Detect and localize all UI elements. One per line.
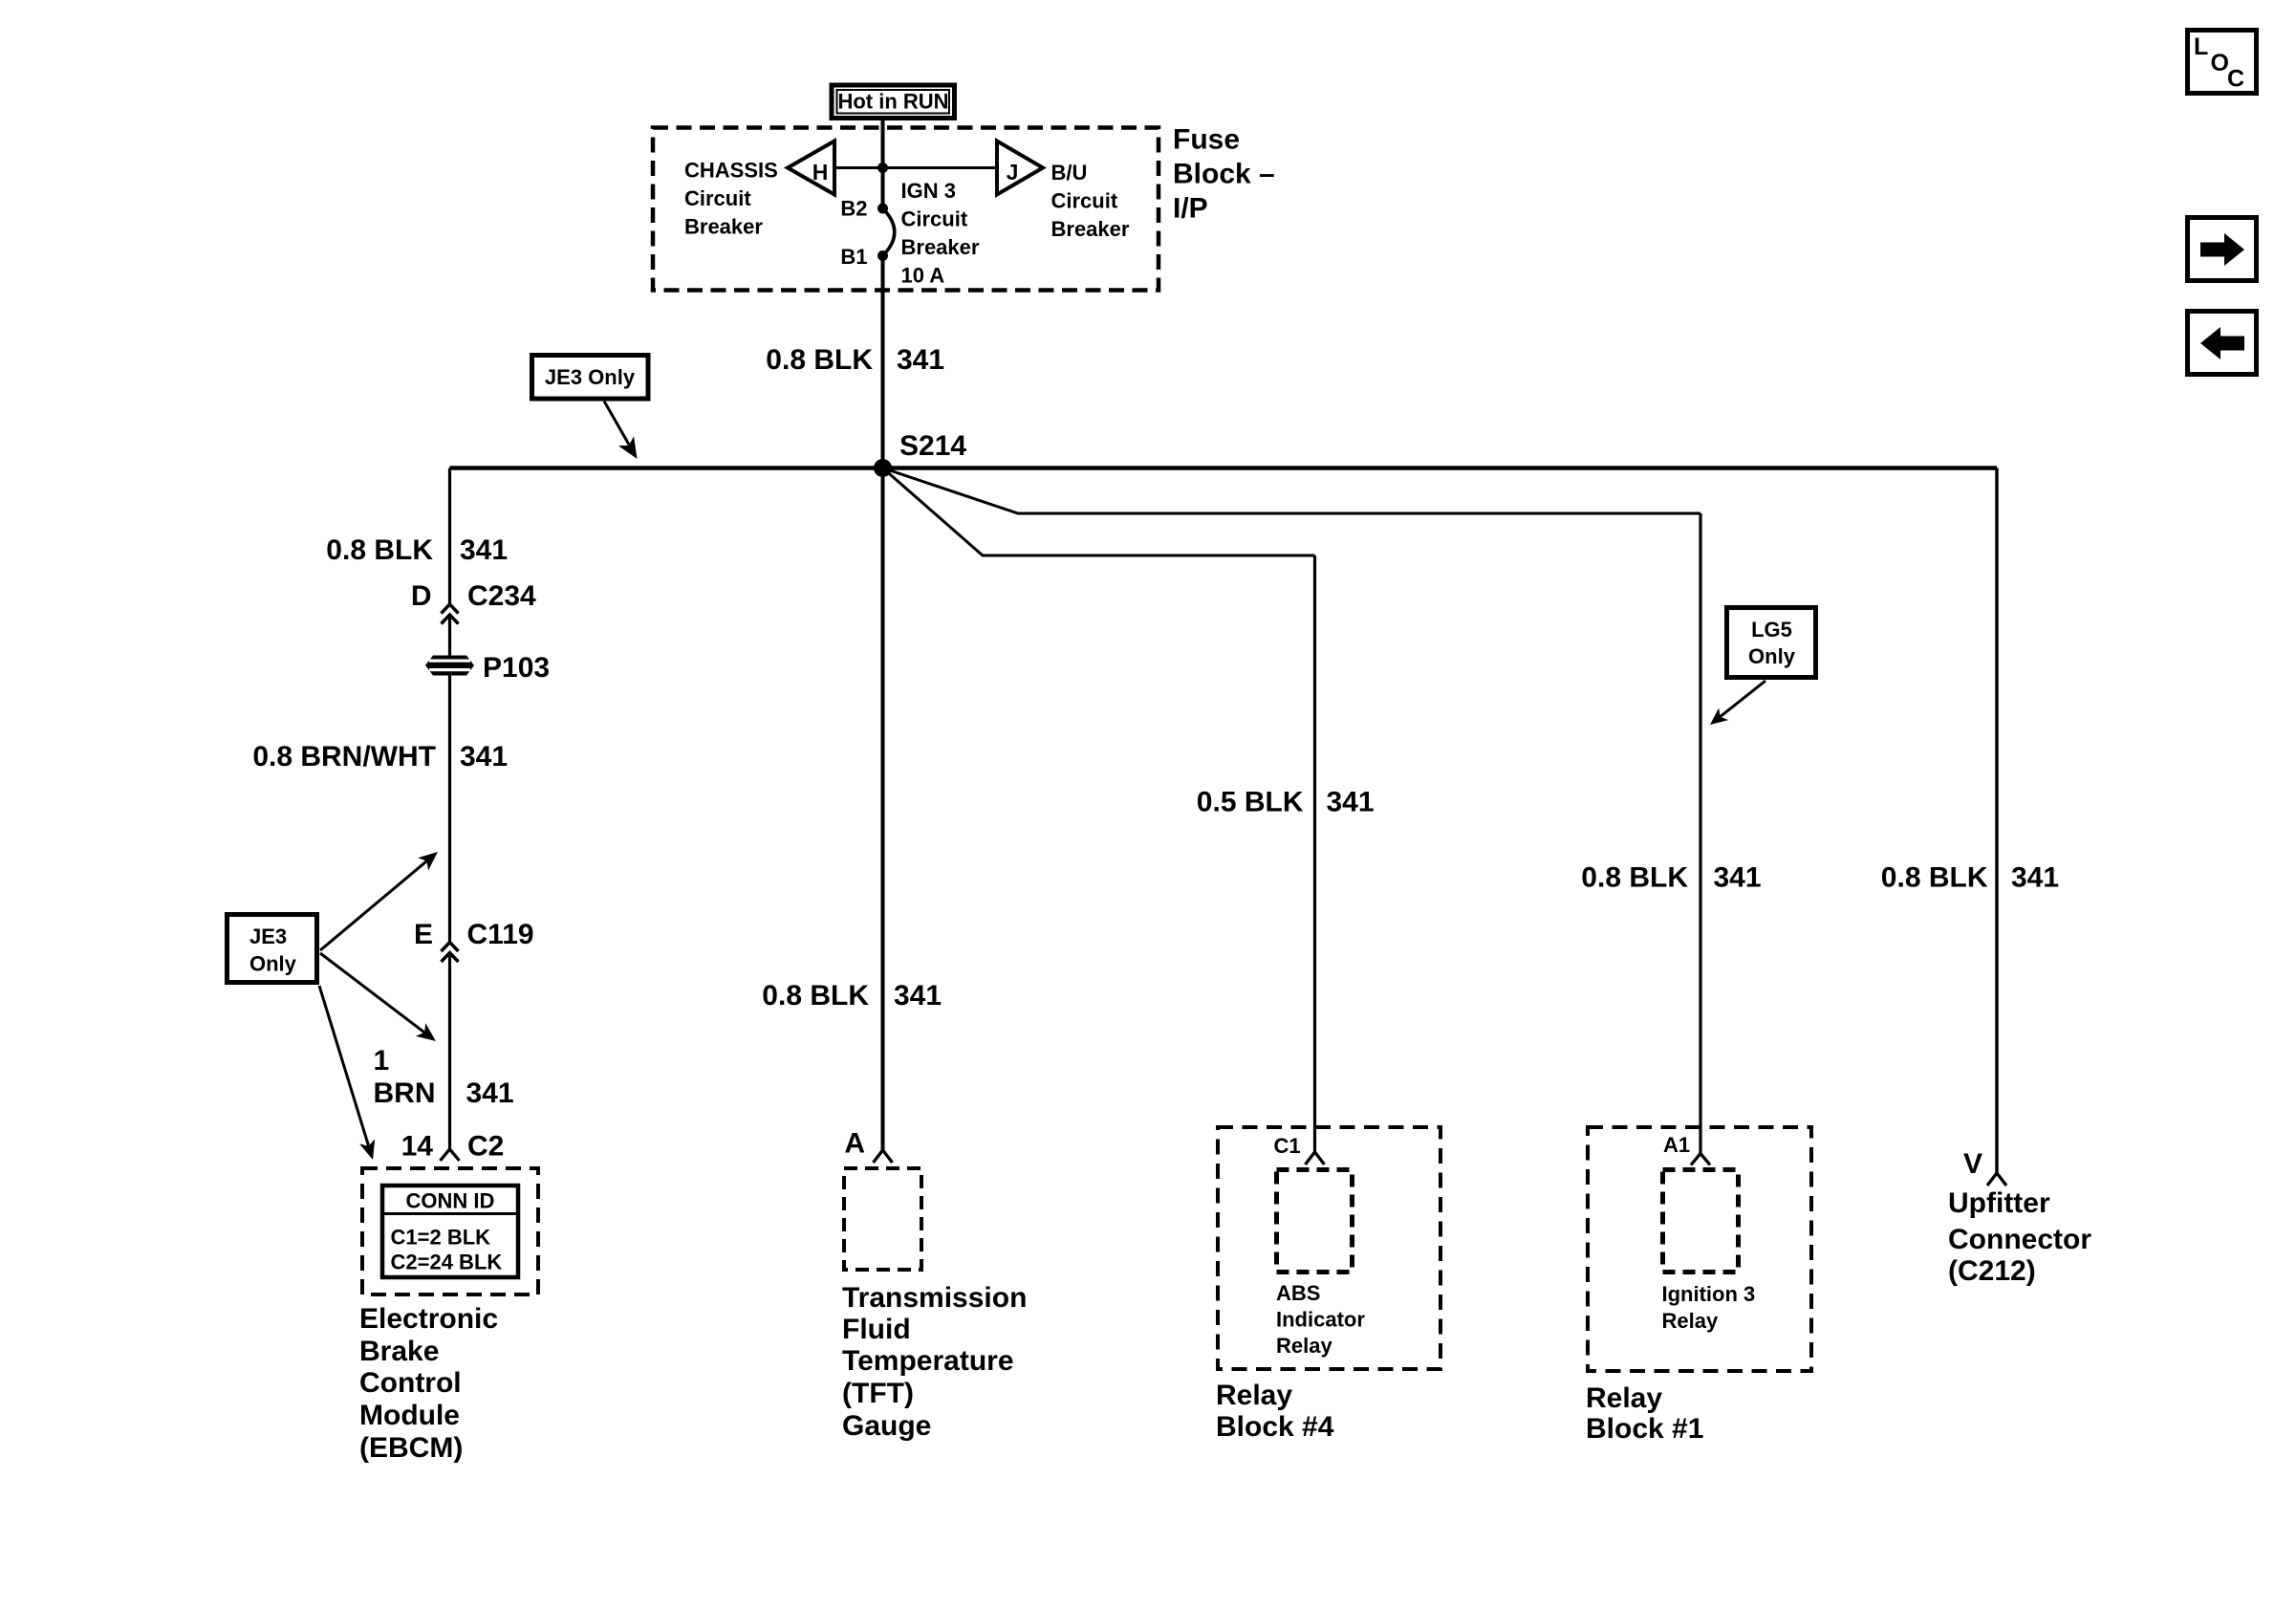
arrow JE3 to wire below E (320, 953, 436, 1041)
svg-text:JE3 Only: JE3 Only (545, 365, 636, 389)
svg-text:Indicator: Indicator (1276, 1308, 1365, 1332)
wire: Hot in RUN down to breaker pin B2 (881, 118, 885, 208)
Ignition 3 Relay inner dashed box (1663, 1170, 1739, 1273)
svg-text:C1=2 BLK: C1=2 BLK (391, 1226, 491, 1250)
wire: H-J horizontal feed (834, 166, 997, 169)
svg-text:Relay: Relay (1276, 1334, 1332, 1358)
wire label 0.8 BLK 341 (TFT branch) (762, 980, 942, 1012)
wire label 0.8 BRN/WHT 341 (252, 741, 508, 772)
wire: C119 down to EBCM pin 14 (448, 953, 451, 1150)
svg-text:Control: Control (359, 1367, 462, 1399)
svg-text:Brake: Brake (359, 1336, 439, 1367)
LOC index box (2188, 31, 2257, 94)
svg-text:0.8 BRN/WHT: 0.8 BRN/WHT (252, 741, 436, 772)
svg-text:C234: C234 (467, 580, 536, 612)
svg-text:Module: Module (359, 1400, 460, 1431)
svg-text:C119: C119 (467, 919, 534, 950)
ABS Indicator Relay inner dashed box (1277, 1170, 1353, 1273)
svg-text:Relay: Relay (1216, 1380, 1292, 1411)
Fuse Block - I/P label (1173, 124, 1275, 225)
svg-text:LG5: LG5 (1751, 618, 1792, 642)
svg-text:14: 14 (401, 1131, 434, 1163)
connector pin A (844, 1128, 892, 1164)
connector pin V (1963, 1148, 2006, 1186)
svg-text:Breaker: Breaker (901, 235, 980, 259)
wire: P103 down to C119 (448, 676, 451, 943)
svg-text:Electronic: Electronic (359, 1303, 498, 1335)
svg-text:Fluid: Fluid (842, 1314, 911, 1345)
svg-text:Circuit: Circuit (901, 207, 968, 231)
svg-text:JE3: JE3 (249, 925, 287, 948)
svg-text:Circuit: Circuit (684, 186, 751, 210)
svg-text:341: 341 (894, 980, 942, 1012)
Relay Block 1 label (1586, 1382, 1703, 1445)
prev-page arrow box (2188, 312, 2257, 375)
arrow JE3 to wire above E (320, 852, 438, 950)
svg-text:Only: Only (249, 952, 297, 976)
arrow JE3 to pin 14 (319, 986, 375, 1160)
svg-text:0.8 BLK: 0.8 BLK (766, 344, 873, 376)
wire label 0.8 BLK 341 (left branch) (326, 534, 508, 566)
svg-text:A1: A1 (1663, 1133, 1690, 1157)
TFT gauge label (842, 1282, 1027, 1442)
svg-text:Connector: Connector (1948, 1224, 2091, 1255)
CHASSIS circuit breaker out-arrow H (788, 141, 834, 195)
ABS Indicator Relay label (1276, 1281, 1365, 1358)
circuit breaker CB1 arc element (883, 208, 895, 256)
svg-text:I/P: I/P (1173, 193, 1208, 225)
svg-text:C: C (2227, 66, 2244, 93)
svg-text:A: A (844, 1128, 865, 1160)
svg-text:0.8 BLK: 0.8 BLK (1581, 862, 1688, 894)
svg-text:0.8 BLK: 0.8 BLK (326, 534, 433, 566)
Relay Block 4 label (1216, 1380, 1334, 1443)
next-page arrow box (2188, 218, 2257, 281)
svg-text:H: H (812, 160, 829, 185)
svg-text:J: J (1007, 160, 1019, 185)
wire label 0.8 BLK 341 (766, 344, 944, 376)
svg-text:(C212): (C212) (1948, 1255, 2036, 1287)
Ignition 3 Relay label (1662, 1282, 1756, 1333)
arrow LG5 to wire (1710, 681, 1765, 725)
svg-text:Upfitter: Upfitter (1948, 1187, 2050, 1219)
svg-text:341: 341 (2011, 862, 2059, 894)
svg-text:CONN ID: CONN ID (406, 1189, 495, 1213)
svg-text:341: 341 (897, 344, 944, 376)
node S214 (874, 430, 966, 477)
svg-text:ABS: ABS (1276, 1281, 1320, 1305)
svg-text:(TFT): (TFT) (842, 1378, 914, 1409)
connector C2 pin 14 (401, 1131, 505, 1163)
svg-text:341: 341 (1327, 787, 1375, 818)
svg-text:0.8 BLK: 0.8 BLK (1881, 862, 1988, 894)
svg-text:S214: S214 (899, 430, 966, 462)
wire: S214 diagonal to relay block 1 branch (883, 468, 1701, 514)
svg-text:V: V (1963, 1148, 1982, 1180)
svg-text:CHASSIS: CHASSIS (684, 159, 778, 183)
svg-text:B/U: B/U (1051, 161, 1088, 185)
CHASSIS Circuit Breaker label (684, 159, 778, 239)
svg-text:0.8 BLK: 0.8 BLK (762, 980, 869, 1012)
EBCM label (359, 1303, 498, 1464)
pin B2 (840, 197, 888, 221)
B/U circuit breaker out-arrow J (997, 141, 1043, 195)
Fuse Block - I/P dashed box (653, 128, 1159, 291)
arrow from JE3 Only box to bus (604, 402, 638, 460)
Relay Block 4 dashed box (1218, 1127, 1440, 1369)
wire label 1 BRN 341 (374, 1045, 514, 1109)
svg-text:Temperature: Temperature (842, 1345, 1014, 1377)
wire label 0.8 BLK 341 (relay 1 branch) (1581, 862, 1761, 894)
connector C234 pin D (411, 580, 536, 624)
svg-text:C1: C1 (1274, 1134, 1301, 1158)
B/U Circuit Breaker label (1051, 161, 1130, 241)
svg-text:D: D (411, 580, 432, 612)
relay pin A1 (1663, 1133, 1710, 1165)
wire: vertical down to A1 (1699, 513, 1701, 1154)
svg-text:BRN: BRN (374, 1077, 436, 1109)
svg-text:Breaker: Breaker (1051, 217, 1130, 241)
svg-text:0.5 BLK: 0.5 BLK (1197, 787, 1304, 818)
svg-text:Ignition 3: Ignition 3 (1662, 1282, 1756, 1306)
svg-text:Block #1: Block #1 (1586, 1413, 1703, 1445)
relay pin C1 (1274, 1134, 1325, 1164)
svg-text:P103: P103 (483, 652, 550, 684)
svg-text:Hot in RUN: Hot in RUN (837, 90, 948, 114)
TFT gauge dashed box (844, 1168, 921, 1270)
wire: S214 diagonal to relay block 4 branch (883, 468, 1315, 556)
svg-text:(EBCM): (EBCM) (359, 1432, 463, 1464)
svg-text:10 A: 10 A (901, 264, 945, 288)
grommet P103 (425, 652, 550, 684)
svg-text:341: 341 (466, 1077, 514, 1109)
svg-text:L: L (2194, 33, 2208, 60)
svg-text:Relay: Relay (1586, 1382, 1662, 1414)
JE3 Only callout box (top) (532, 356, 649, 400)
svg-text:Breaker: Breaker (684, 215, 763, 239)
svg-text:C2=24 BLK: C2=24 BLK (391, 1251, 503, 1274)
svg-text:Only: Only (1748, 644, 1796, 668)
CONN ID table (382, 1186, 518, 1277)
LG5 Only callout box (1727, 608, 1816, 678)
svg-text:Block –: Block – (1173, 159, 1275, 190)
wire: main ground bus (450, 466, 1998, 470)
Upfitter Connector label (1948, 1187, 2091, 1287)
svg-text:341: 341 (460, 741, 508, 772)
svg-text:Transmission: Transmission (842, 1282, 1027, 1314)
wire: vertical down to C1 (1313, 555, 1316, 1152)
svg-text:Relay: Relay (1662, 1309, 1719, 1333)
svg-text:Gauge: Gauge (842, 1410, 931, 1442)
svg-text:341: 341 (1714, 862, 1762, 894)
svg-text:C2: C2 (467, 1131, 504, 1163)
wire: breaker B1 down to splice S214 (881, 256, 885, 468)
svg-text:341: 341 (460, 534, 508, 566)
connector C119 pin E (414, 919, 534, 962)
wire: bus right end down to upfitter connector (1995, 468, 1999, 1174)
pin B1 (840, 245, 888, 269)
svg-text:IGN 3: IGN 3 (901, 179, 956, 203)
svg-text:1: 1 (374, 1045, 390, 1077)
svg-text:B1: B1 (840, 245, 867, 269)
svg-text:Block #4: Block #4 (1216, 1411, 1334, 1443)
Hot in RUN power label box (832, 85, 955, 119)
Relay Block 1 dashed box (1588, 1127, 1811, 1371)
svg-text:B2: B2 (840, 197, 867, 221)
wire label 0.8 BLK 341 (upfitter branch) (1881, 862, 2059, 894)
node: junction dot on feed (877, 163, 888, 173)
wire: C234 to P103 (448, 615, 451, 656)
wire: left branch down to C234 (448, 468, 451, 605)
svg-text:Fuse: Fuse (1173, 124, 1240, 156)
EBCM dashed box (362, 1168, 538, 1295)
IGN 3 Circuit Breaker 10 A label (901, 179, 980, 288)
wire: S214 down to TFT gauge (881, 468, 885, 1151)
wire label 0.5 BLK 341 (1197, 787, 1375, 818)
JE3 Only callout box (left) (227, 915, 317, 983)
svg-text:E: E (414, 919, 433, 950)
svg-text:Circuit: Circuit (1051, 189, 1118, 213)
